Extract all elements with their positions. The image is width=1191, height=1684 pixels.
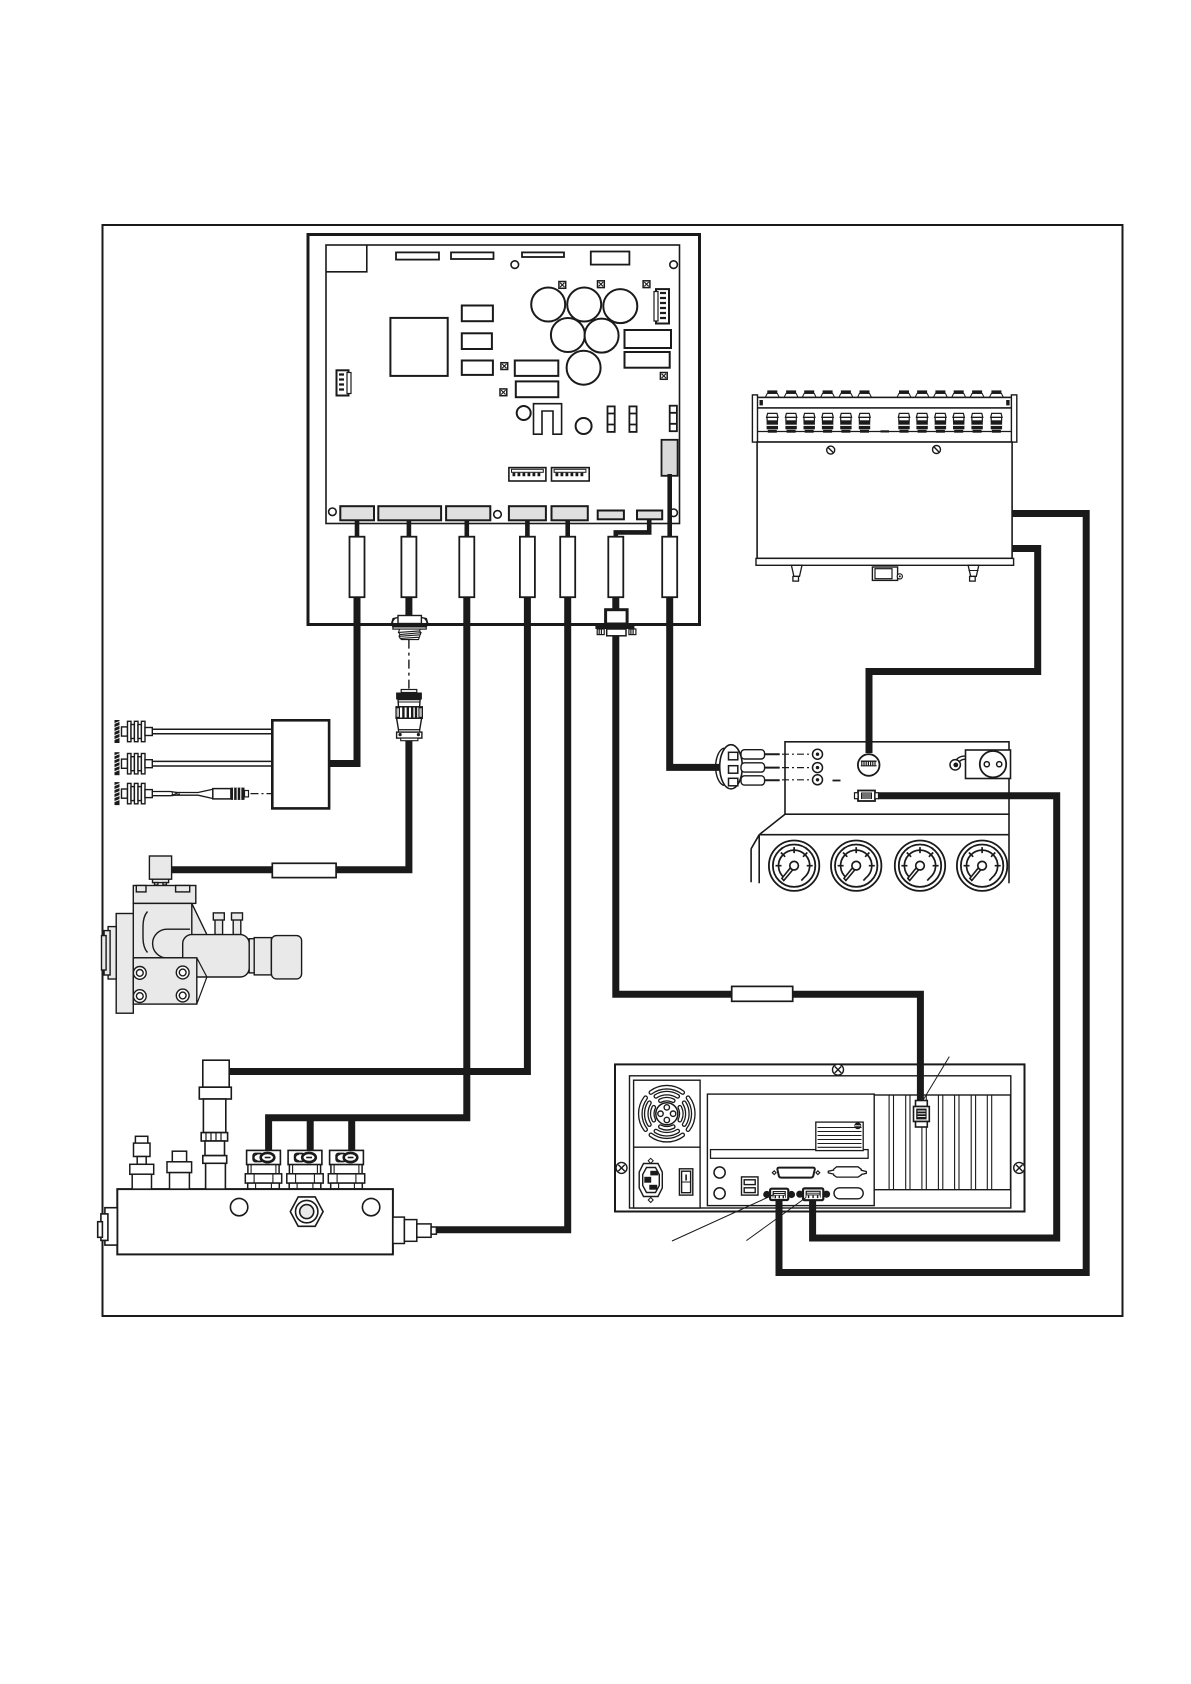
terminal head section body [757, 408, 1012, 442]
manifold body [117, 1189, 393, 1254]
PS2 port 1 [714, 1167, 725, 1178]
bottom strip [756, 558, 1014, 565]
PCB corner block [326, 245, 367, 272]
cable label on PC wire [732, 986, 793, 1001]
wire stub CN4 [525, 520, 530, 545]
jack 2 [813, 763, 823, 773]
case screw left [616, 1162, 627, 1173]
wire cable 6 upper: tube to D-sub [612, 590, 619, 610]
panel left side faces [751, 835, 759, 884]
cable label on pump wire [272, 863, 336, 877]
terminal top plug 7 [897, 390, 911, 397]
wire cable 5: tube to pressure switch [437, 590, 568, 1230]
wire C: panel D-sub to COM2 [813, 796, 1057, 1238]
IO slot bar [711, 1150, 869, 1159]
bottom connector CN6 [598, 511, 624, 520]
rect block 3 [462, 361, 493, 375]
terminal plug 6 [859, 413, 870, 432]
solenoid valve SV3 [328, 1150, 364, 1188]
mount hole top right [670, 261, 678, 269]
mount hole bottom left [329, 508, 337, 516]
capacitor C5 [585, 319, 619, 353]
terminal top plug 9 [933, 390, 947, 397]
solenoid valve SV1 [245, 1150, 281, 1188]
fitting F2 [167, 1151, 192, 1189]
sensor 2 cable [153, 761, 273, 766]
terminal plug 1 [767, 413, 778, 432]
IO recess [707, 1094, 874, 1206]
blank oval port [834, 1188, 863, 1199]
ferrite tube 6 [608, 537, 623, 598]
mid rect block 7 [516, 381, 559, 397]
terminal plug 3 [804, 413, 815, 432]
PSU box [634, 1080, 701, 1208]
PC expansion card serial connector [914, 1101, 930, 1128]
case screw right [1014, 1162, 1025, 1173]
PS2 port 2 [714, 1188, 725, 1199]
wire cable 4: tube to pressure sensor [229, 590, 527, 1072]
C14 power inlet [639, 1158, 662, 1202]
jack 3 [813, 775, 823, 785]
pump bottom block [133, 958, 197, 1004]
solenoid valve SV2 [287, 1150, 323, 1188]
pointer line to COM1 [672, 1195, 774, 1242]
bulkhead receptacle connector [392, 616, 428, 640]
DIP header H2 [552, 468, 590, 481]
pump main body [133, 903, 207, 957]
wire cable 6 lower: D-sub to PC card port [616, 634, 921, 1103]
pad X6 [660, 373, 667, 380]
sensor 1 wall [115, 720, 120, 743]
bottom connector CN1 [340, 506, 374, 520]
sensor 3 wall [115, 782, 120, 805]
terminal box main body [757, 442, 1012, 558]
proximity sensor B1 [122, 721, 153, 741]
left foot [791, 565, 802, 581]
control unit outer box [308, 235, 700, 625]
ferrite tube 3 [459, 537, 474, 598]
pad X4 [501, 363, 508, 370]
dash-dot leads to jacks [782, 753, 812, 755]
end block [271, 936, 301, 979]
terminal plug 4 [822, 413, 833, 432]
nipple 2 [233, 919, 241, 935]
expansion slots area [874, 1095, 1010, 1190]
PC case outer [615, 1064, 1025, 1211]
big IC U1 [390, 318, 447, 376]
wire stub CN1 [355, 520, 360, 545]
proximity sensor B3 [122, 783, 153, 803]
pad X5 [500, 389, 507, 396]
terminal top plug 4 [821, 390, 835, 397]
terminal plug 10 [953, 413, 964, 432]
serial port COM1 [763, 1189, 795, 1200]
terminal plug 12 [991, 413, 1002, 432]
right pressure switch [393, 1217, 437, 1243]
right end plate [1011, 395, 1016, 442]
right rect block 4 [625, 330, 672, 348]
terminal top plug 1 [765, 390, 779, 397]
pad X1 [559, 282, 566, 289]
body screw left [827, 446, 835, 454]
PCB board outline [326, 245, 680, 524]
power switch [679, 1169, 692, 1195]
pump right cylinder [183, 935, 250, 977]
wire cable 8: tube to test plug [670, 590, 721, 767]
PSU fan [640, 1087, 693, 1140]
sensor 1 cable [153, 729, 273, 734]
panel front face right edge [1008, 835, 1010, 884]
wire cable 2 lower: plug to pump solenoid [172, 740, 409, 870]
bottom connector CN7 [637, 511, 662, 520]
terminal plug 9 [935, 413, 946, 432]
diode D2 [629, 406, 636, 432]
DIP header H1 [509, 468, 546, 481]
valve terminal box: top connectors above rail [765, 390, 1003, 397]
bottom connector CN4 [509, 506, 546, 520]
parallel port [772, 1168, 820, 1178]
mount hole bottom middle [494, 511, 502, 519]
top bar 1 [396, 252, 439, 259]
terminal top plug 2 [784, 390, 798, 397]
sensor 3 cable with plug [153, 788, 273, 800]
control panel rear top face [785, 742, 1009, 814]
wire cable 2 upper: tube to bulkhead connector [405, 590, 412, 616]
small circle right of bracket [576, 418, 592, 434]
test plug into panel [716, 745, 780, 789]
bolt 1 [133, 967, 146, 980]
terminal top plug 12 [989, 390, 1003, 397]
pressure sensor tall [199, 1060, 231, 1189]
top bar 3 [522, 252, 564, 257]
wire cable 1: CN1 to junction box [329, 590, 357, 764]
dash mark [833, 780, 841, 782]
dosing pump assembly [102, 856, 302, 1013]
pump top plate [133, 886, 196, 904]
body hex plug [290, 1197, 323, 1226]
PC inner panel [630, 1076, 1011, 1208]
capacitor C3 [603, 289, 637, 323]
panel slope to front face [759, 814, 1009, 835]
wire stub CN2 [407, 520, 412, 545]
wire B: terminal box to panel DIN [869, 549, 1038, 754]
terminal plug 11 [971, 413, 982, 432]
bolt 4 [176, 989, 189, 1002]
rect block 1 [462, 306, 493, 322]
terminal plug 2 [785, 413, 796, 432]
terminal top plug 11 [970, 390, 984, 397]
left header connector J1 [337, 370, 352, 395]
panel D-sub COM connector [855, 791, 879, 802]
pump left cylinder stack [108, 927, 116, 979]
ferrite tube 5 [560, 537, 575, 598]
nipple 1 [215, 919, 223, 935]
bolt 2 [176, 966, 189, 979]
dash-dot mating line [408, 640, 410, 690]
ferrite tube 2 [401, 537, 416, 598]
bottom connector CN3 [446, 506, 490, 520]
vent valve V1 [130, 1136, 154, 1189]
pad X3 [643, 281, 650, 288]
mount hole bottom right [670, 509, 678, 517]
onboard video D-sub [875, 1117, 885, 1155]
body circle right [362, 1198, 379, 1215]
terminal plug 7 [898, 413, 909, 432]
proximity sensor B2 [122, 754, 153, 774]
wire stub CN7 bend [616, 519, 649, 545]
pointer line to COM2 [746, 1198, 806, 1241]
sensor 2 wall [115, 752, 120, 775]
pad X2 [598, 281, 605, 288]
ferrite block gray [662, 440, 678, 476]
body circle left [230, 1198, 247, 1215]
terminal plug 5 [840, 413, 851, 432]
ferrite tube 7 [662, 537, 677, 598]
center fixture box [872, 567, 902, 580]
gauge 2 [831, 841, 881, 891]
small gap mark [881, 430, 890, 432]
pump solenoid block [149, 856, 171, 879]
cable plug connector [396, 690, 422, 741]
gauge 3 [895, 841, 945, 891]
pump left flange [116, 914, 133, 1014]
PCB D-sub connector [595, 610, 636, 636]
terminal top plug 8 [915, 390, 929, 397]
computer rear panel [615, 1064, 1025, 1211]
diode D3 [670, 406, 677, 432]
gauge 4 [957, 841, 1007, 891]
pointer line to card connector [923, 1057, 949, 1100]
capacitor C6 [567, 351, 601, 385]
small circle left of bracket [517, 406, 531, 420]
top bar 2 [451, 252, 494, 259]
bottom connector CN2 [378, 506, 441, 520]
power socket block [966, 750, 1011, 779]
wire stub CN5 [565, 520, 570, 545]
mount hole top middle [511, 261, 519, 269]
right foot [968, 565, 979, 581]
coupling [249, 939, 254, 973]
wire stub ferrite block [667, 474, 672, 545]
wire A: terminal box to COM1 [779, 514, 1086, 1273]
terminal top plug 10 [952, 390, 966, 397]
top bar 4 [591, 252, 630, 265]
outer border frame [103, 225, 1123, 1316]
game port [828, 1167, 866, 1177]
body screw right [933, 446, 941, 454]
terminal top plug 6 [858, 390, 872, 397]
U bracket component [534, 404, 562, 435]
mid rect block 6 [515, 361, 559, 376]
wire valve drop 3 [348, 1118, 355, 1151]
sensor junction box [272, 720, 329, 808]
wire valve drop 2 [307, 1118, 314, 1151]
terminal plug 8 [916, 413, 927, 432]
wire cable 3: tube to solenoid valves bus [269, 590, 467, 1151]
case screw top [833, 1064, 844, 1075]
vented LAN box [816, 1122, 863, 1151]
bolt 3 [133, 990, 146, 1003]
right rect block 5 [625, 352, 670, 368]
capacitor C4 [551, 318, 585, 352]
ferrite tube 4 [520, 537, 535, 598]
terminal rail [757, 397, 1012, 408]
jack 1 [813, 749, 823, 759]
cord strain loop [950, 756, 966, 770]
wire stub CN3 [464, 520, 469, 545]
left end plate [752, 395, 757, 442]
terminal top plug 3 [802, 390, 816, 397]
left outlet fitting [105, 1208, 117, 1245]
DIN round connector on panel [858, 754, 880, 776]
terminal top plug 5 [839, 390, 853, 397]
capacitor C1 [531, 288, 565, 322]
ferrite tube 1 [350, 537, 365, 598]
rect block 2 [462, 333, 492, 349]
grease manifold block [98, 1060, 437, 1254]
serial port COM2 [796, 1188, 830, 1200]
diode D1 [608, 406, 615, 432]
bottom connector CN5 [552, 506, 588, 520]
USB ports [742, 1177, 759, 1195]
capacitor C2 [567, 288, 601, 322]
right header connector J2 [654, 289, 669, 323]
gauge 1 [769, 841, 819, 891]
